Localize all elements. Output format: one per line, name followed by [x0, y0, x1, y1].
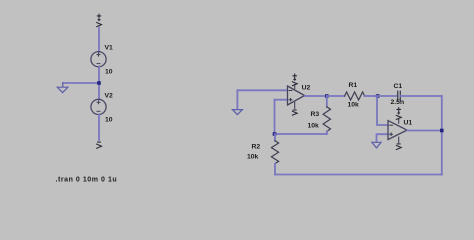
wire U1 + input to ground	[377, 134, 389, 142]
net flag -V (below U2)	[292, 110, 297, 115]
net flag +V (above U1)	[396, 108, 401, 120]
svg-text:U1: U1	[404, 120, 413, 127]
svg-text:10: 10	[105, 69, 113, 76]
svg-text:10k: 10k	[247, 154, 259, 161]
wire bottom rail	[275, 174, 442, 176]
ground (U2 input)	[232, 110, 242, 115]
capacitor C1	[378, 91, 442, 100]
node junction R2/R3	[273, 132, 277, 136]
svg-text:R3: R3	[311, 111, 320, 118]
svg-text:V2: V2	[105, 93, 114, 100]
svg-text:R1: R1	[349, 82, 358, 89]
wire V1 to V2	[98, 67, 100, 100]
resistor R3	[323, 96, 330, 134]
node junction U1 output / feedback	[440, 129, 444, 133]
wire inverting riser to U1	[377, 96, 388, 125]
node junction between V1 and V2	[97, 81, 101, 85]
wire U2 inverting input	[275, 99, 288, 101]
svg-text:V1: V1	[105, 45, 114, 52]
resistor R2	[271, 134, 278, 175]
wire R2/R3 junction horizontal	[275, 133, 327, 135]
op-amp U2	[288, 84, 305, 108]
svg-text:10k: 10k	[348, 101, 360, 108]
svg-text:10: 10	[105, 116, 113, 123]
net flag +V (top of left branch)	[97, 14, 102, 27]
net flag +V (above U2)	[292, 74, 297, 86]
svg-text:10k: 10k	[308, 123, 320, 130]
wire right side vertical	[441, 96, 443, 175]
wire U2 output to R3 junction	[305, 95, 327, 97]
net flag -V (bottom of left branch)	[97, 142, 102, 148]
wire ground stem (U2 input ground)	[236, 90, 238, 109]
wire junction to ground	[63, 82, 99, 84]
svg-text:C1: C1	[394, 83, 403, 90]
node junction U2 out / R1 / R3	[325, 94, 329, 98]
wire U1 output	[407, 130, 442, 132]
voltage source V1	[91, 52, 106, 67]
svg-text:2.5n: 2.5n	[391, 99, 405, 106]
wire V2 to bottom flag	[98, 114, 100, 140]
ground (U1 input)	[372, 142, 381, 148]
svg-text:R2: R2	[252, 144, 261, 151]
wire top flag to V1	[98, 28, 100, 52]
svg-text:U2: U2	[302, 85, 311, 92]
node junction R1/C1/U1 input	[376, 94, 380, 98]
wire ground to U2 noninverting input	[237, 89, 287, 91]
op-amp U1	[388, 119, 407, 143]
net flag -V (below U1)	[396, 144, 401, 150]
resistor R1	[327, 92, 378, 100]
ground (left circuit)	[57, 83, 68, 93]
svg-text:.tran 0 10m 0 1u: .tran 0 10m 0 1u	[56, 177, 118, 184]
wire riser U2 input to R2/R3 junction	[274, 100, 276, 134]
voltage source V2	[91, 99, 106, 114]
